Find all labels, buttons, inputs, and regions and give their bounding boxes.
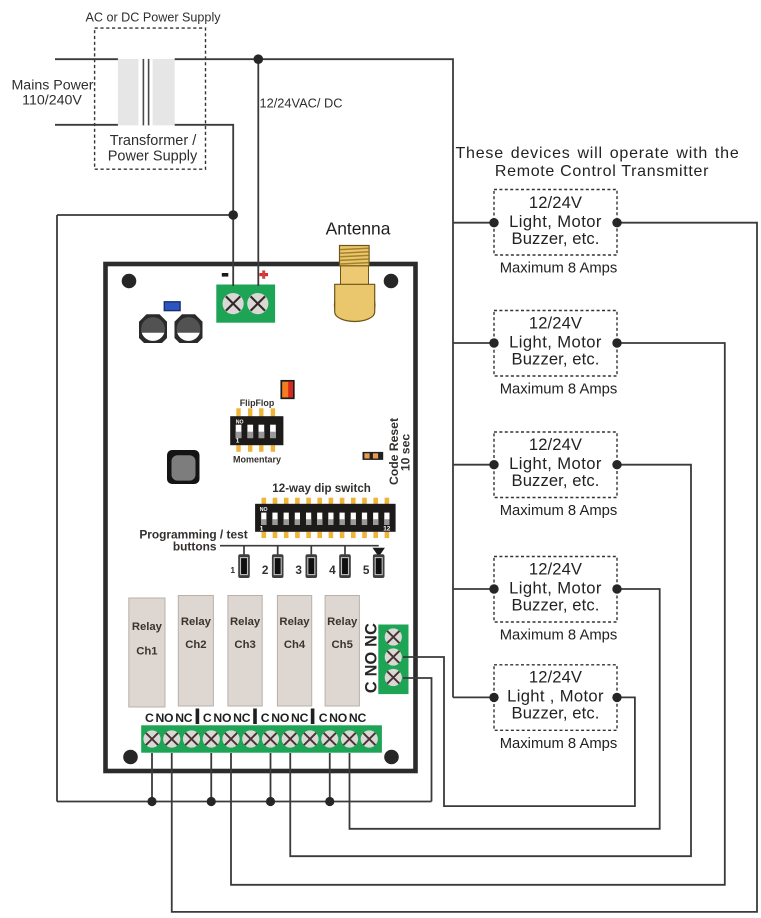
svg-text:12/24V: 12/24V	[529, 313, 582, 332]
wire C2 drop	[210, 753, 212, 802]
svg-text:NO: NO	[271, 711, 289, 725]
wire C3 drop	[270, 753, 272, 802]
svg-text:Remote Control Transmitter: Remote Control Transmitter	[495, 163, 709, 180]
svg-text:C: C	[203, 711, 212, 725]
svg-text:1: 1	[260, 525, 264, 532]
svg-text:Relay: Relay	[230, 616, 261, 628]
terminal strip TB-out	[141, 709, 382, 753]
capacitor C2	[175, 314, 203, 343]
svg-text:Ch3: Ch3	[234, 639, 255, 651]
button 1	[238, 554, 250, 578]
svg-text:1: 1	[236, 437, 240, 444]
svg-text:12/24V: 12/24V	[529, 193, 582, 212]
svg-text:Buzzer, etc.: Buzzer, etc.	[512, 229, 600, 248]
svg-text:FlipFlop: FlipFlop	[240, 398, 275, 408]
svg-text:NC: NC	[233, 711, 251, 725]
wire NO3 to device 3	[290, 465, 691, 857]
svg-text:Buzzer, etc.: Buzzer, etc.	[512, 595, 600, 614]
svg-text:C NO NC: C NO NC	[363, 623, 381, 693]
svg-text:NO: NO	[213, 711, 231, 725]
junction node C1 bus	[147, 797, 156, 806]
wire stub to device 3	[453, 464, 494, 466]
wire NO2 to device 2	[231, 343, 725, 885]
dip switch S2 (12-way)	[255, 498, 396, 538]
button 4 stem	[344, 546, 346, 555]
svg-text:Buzzer, etc.: Buzzer, etc.	[512, 704, 600, 723]
label: + polarity	[259, 270, 268, 278]
relay RLY3	[228, 596, 262, 707]
terminal strip TB-out	[141, 725, 382, 752]
junction node + output	[253, 54, 263, 64]
jumper J1 (code reset)	[363, 452, 384, 460]
svg-text:Buzzer, etc.: Buzzer, etc.	[512, 349, 600, 368]
wire stub to device 5	[453, 696, 494, 698]
button 5 stem	[373, 548, 385, 557]
svg-text:12/24V: 12/24V	[529, 559, 582, 578]
svg-text:Ch4: Ch4	[284, 639, 306, 651]
svg-text:12/24VAC/ DC: 12/24VAC/ DC	[260, 96, 343, 111]
label: - polarity	[222, 273, 229, 277]
wire stub to device 2	[453, 342, 494, 344]
svg-text:Ch1: Ch1	[136, 646, 157, 658]
svg-text:C: C	[261, 711, 270, 725]
led D1 (orange/red)	[281, 381, 294, 399]
svg-text:110/240V: 110/240V	[22, 93, 82, 109]
svg-text:12/24V: 12/24V	[529, 435, 582, 454]
junction node - branch	[228, 210, 238, 220]
svg-text:Maximum 8 Amps: Maximum 8 Amps	[500, 261, 618, 277]
svg-text:Relay: Relay	[132, 621, 163, 633]
wire mains neutral to transformer primary	[55, 124, 118, 126]
mounting hole bottom-right	[384, 750, 399, 765]
svg-text:Mains Power: Mains Power	[11, 78, 93, 94]
svg-text:12/24V: 12/24V	[529, 668, 582, 687]
svg-text:Ch5: Ch5	[332, 639, 353, 651]
wire stub to device 4	[453, 588, 494, 590]
svg-text:C: C	[145, 711, 154, 725]
svg-text:Relay: Relay	[327, 616, 358, 628]
wire transformer - output	[175, 125, 234, 286]
svg-text:C: C	[319, 711, 328, 725]
button 1 stem	[243, 546, 245, 555]
terminal block TB-ch5	[363, 623, 409, 694]
wire NO1 to device 1	[172, 223, 757, 912]
wire transformer + output to right bus	[175, 59, 453, 697]
button 3	[306, 554, 318, 578]
relay RLY4	[277, 596, 311, 707]
svg-text:NC: NC	[291, 711, 309, 725]
mounting hole bottom-left	[123, 750, 138, 765]
relay RLY1	[129, 598, 165, 707]
device load 4	[489, 557, 621, 623]
buttons SW1-SW5	[230, 546, 384, 578]
wire stub to device 1	[453, 222, 494, 224]
svg-text:12-way dip switch: 12-way dip switch	[272, 482, 371, 495]
device load 3	[489, 432, 621, 498]
svg-text:Maximum 8 Amps: Maximum 8 Amps	[500, 503, 618, 519]
wire mains live to transformer primary	[55, 58, 118, 60]
svg-text:Buzzer, etc.: Buzzer, etc.	[512, 471, 600, 490]
svg-text:Relay: Relay	[279, 616, 310, 628]
device load 1	[489, 190, 621, 256]
ic U1	[167, 450, 200, 484]
pcb outline	[106, 264, 416, 771]
svg-text:These devices will operate wit: These devices will operate with the	[455, 145, 739, 162]
wire NO5 to device 5	[403, 657, 635, 806]
svg-text:Antenna: Antenna	[326, 219, 391, 239]
terminal block TB-power	[216, 285, 275, 323]
svg-text:10 sec: 10 sec	[399, 434, 413, 471]
wire common left vertical	[56, 215, 58, 802]
junction node C4 bus	[325, 797, 334, 806]
svg-text:4: 4	[329, 563, 336, 577]
dip switch S1 (4-way)	[230, 408, 283, 452]
wire - branch horizontal	[57, 214, 233, 216]
svg-text:NO: NO	[155, 711, 173, 725]
terminal block TB-ch5	[378, 625, 408, 695]
mounting hole top-left	[122, 274, 137, 289]
wire + down to board terminal	[257, 59, 259, 286]
capacitor C1	[139, 314, 167, 343]
svg-text:buttons: buttons	[173, 540, 217, 554]
svg-text:1: 1	[230, 565, 235, 575]
SECTION: pcb board	[106, 219, 416, 772]
SECTION: device boxes	[455, 145, 739, 752]
svg-text:3: 3	[295, 563, 302, 577]
wire C4 drop	[329, 753, 331, 802]
device load 2	[489, 311, 621, 377]
wire NO4 to device 4	[350, 589, 660, 829]
svg-text:Maximum 8 Amps: Maximum 8 Amps	[500, 382, 618, 398]
svg-text:2: 2	[262, 563, 269, 577]
button 4	[339, 554, 351, 578]
svg-text:Transformer /: Transformer /	[110, 133, 197, 149]
wire bus to ch5 C terminal	[403, 678, 432, 802]
svg-text:NO: NO	[236, 420, 244, 426]
svg-text:Maximum 8 Amps: Maximum 8 Amps	[500, 628, 618, 644]
device load 5	[489, 665, 621, 731]
svg-text:5: 5	[363, 563, 370, 577]
svg-text:Momentary: Momentary	[233, 455, 281, 465]
wire common bottom bus	[57, 801, 432, 803]
button 2	[272, 554, 284, 578]
svg-text:NO: NO	[260, 507, 268, 513]
svg-text:NC: NC	[349, 711, 367, 725]
mounting hole top-right	[384, 274, 399, 289]
svg-text:Relay: Relay	[181, 616, 212, 628]
wire C1 drop	[151, 753, 153, 802]
antenna	[334, 246, 375, 322]
svg-text:Ch2: Ch2	[185, 639, 206, 651]
relays	[129, 596, 360, 708]
relay RLY2	[178, 596, 213, 707]
relay RLY5	[325, 596, 359, 707]
svg-text:12: 12	[383, 525, 391, 532]
button 3 stem	[310, 546, 312, 555]
svg-text:NC: NC	[175, 711, 193, 725]
svg-text:NO: NO	[329, 711, 347, 725]
transformer T1	[118, 59, 175, 126]
button 5	[373, 554, 385, 578]
junction node C2 bus	[207, 797, 216, 806]
wire button pointer	[220, 545, 379, 547]
transformer enclosure (dashed)	[95, 28, 206, 169]
button 2 stem	[277, 546, 279, 555]
svg-text:AC or DC Power Supply: AC or DC Power Supply	[85, 11, 221, 25]
junction node C3 bus	[266, 797, 275, 806]
SECTION: power supply	[11, 11, 342, 170]
svg-text:Maximum 8 Amps: Maximum 8 Amps	[500, 736, 618, 752]
capacitor trim component (blue)	[164, 302, 180, 311]
svg-text:Power Supply: Power Supply	[108, 149, 198, 165]
